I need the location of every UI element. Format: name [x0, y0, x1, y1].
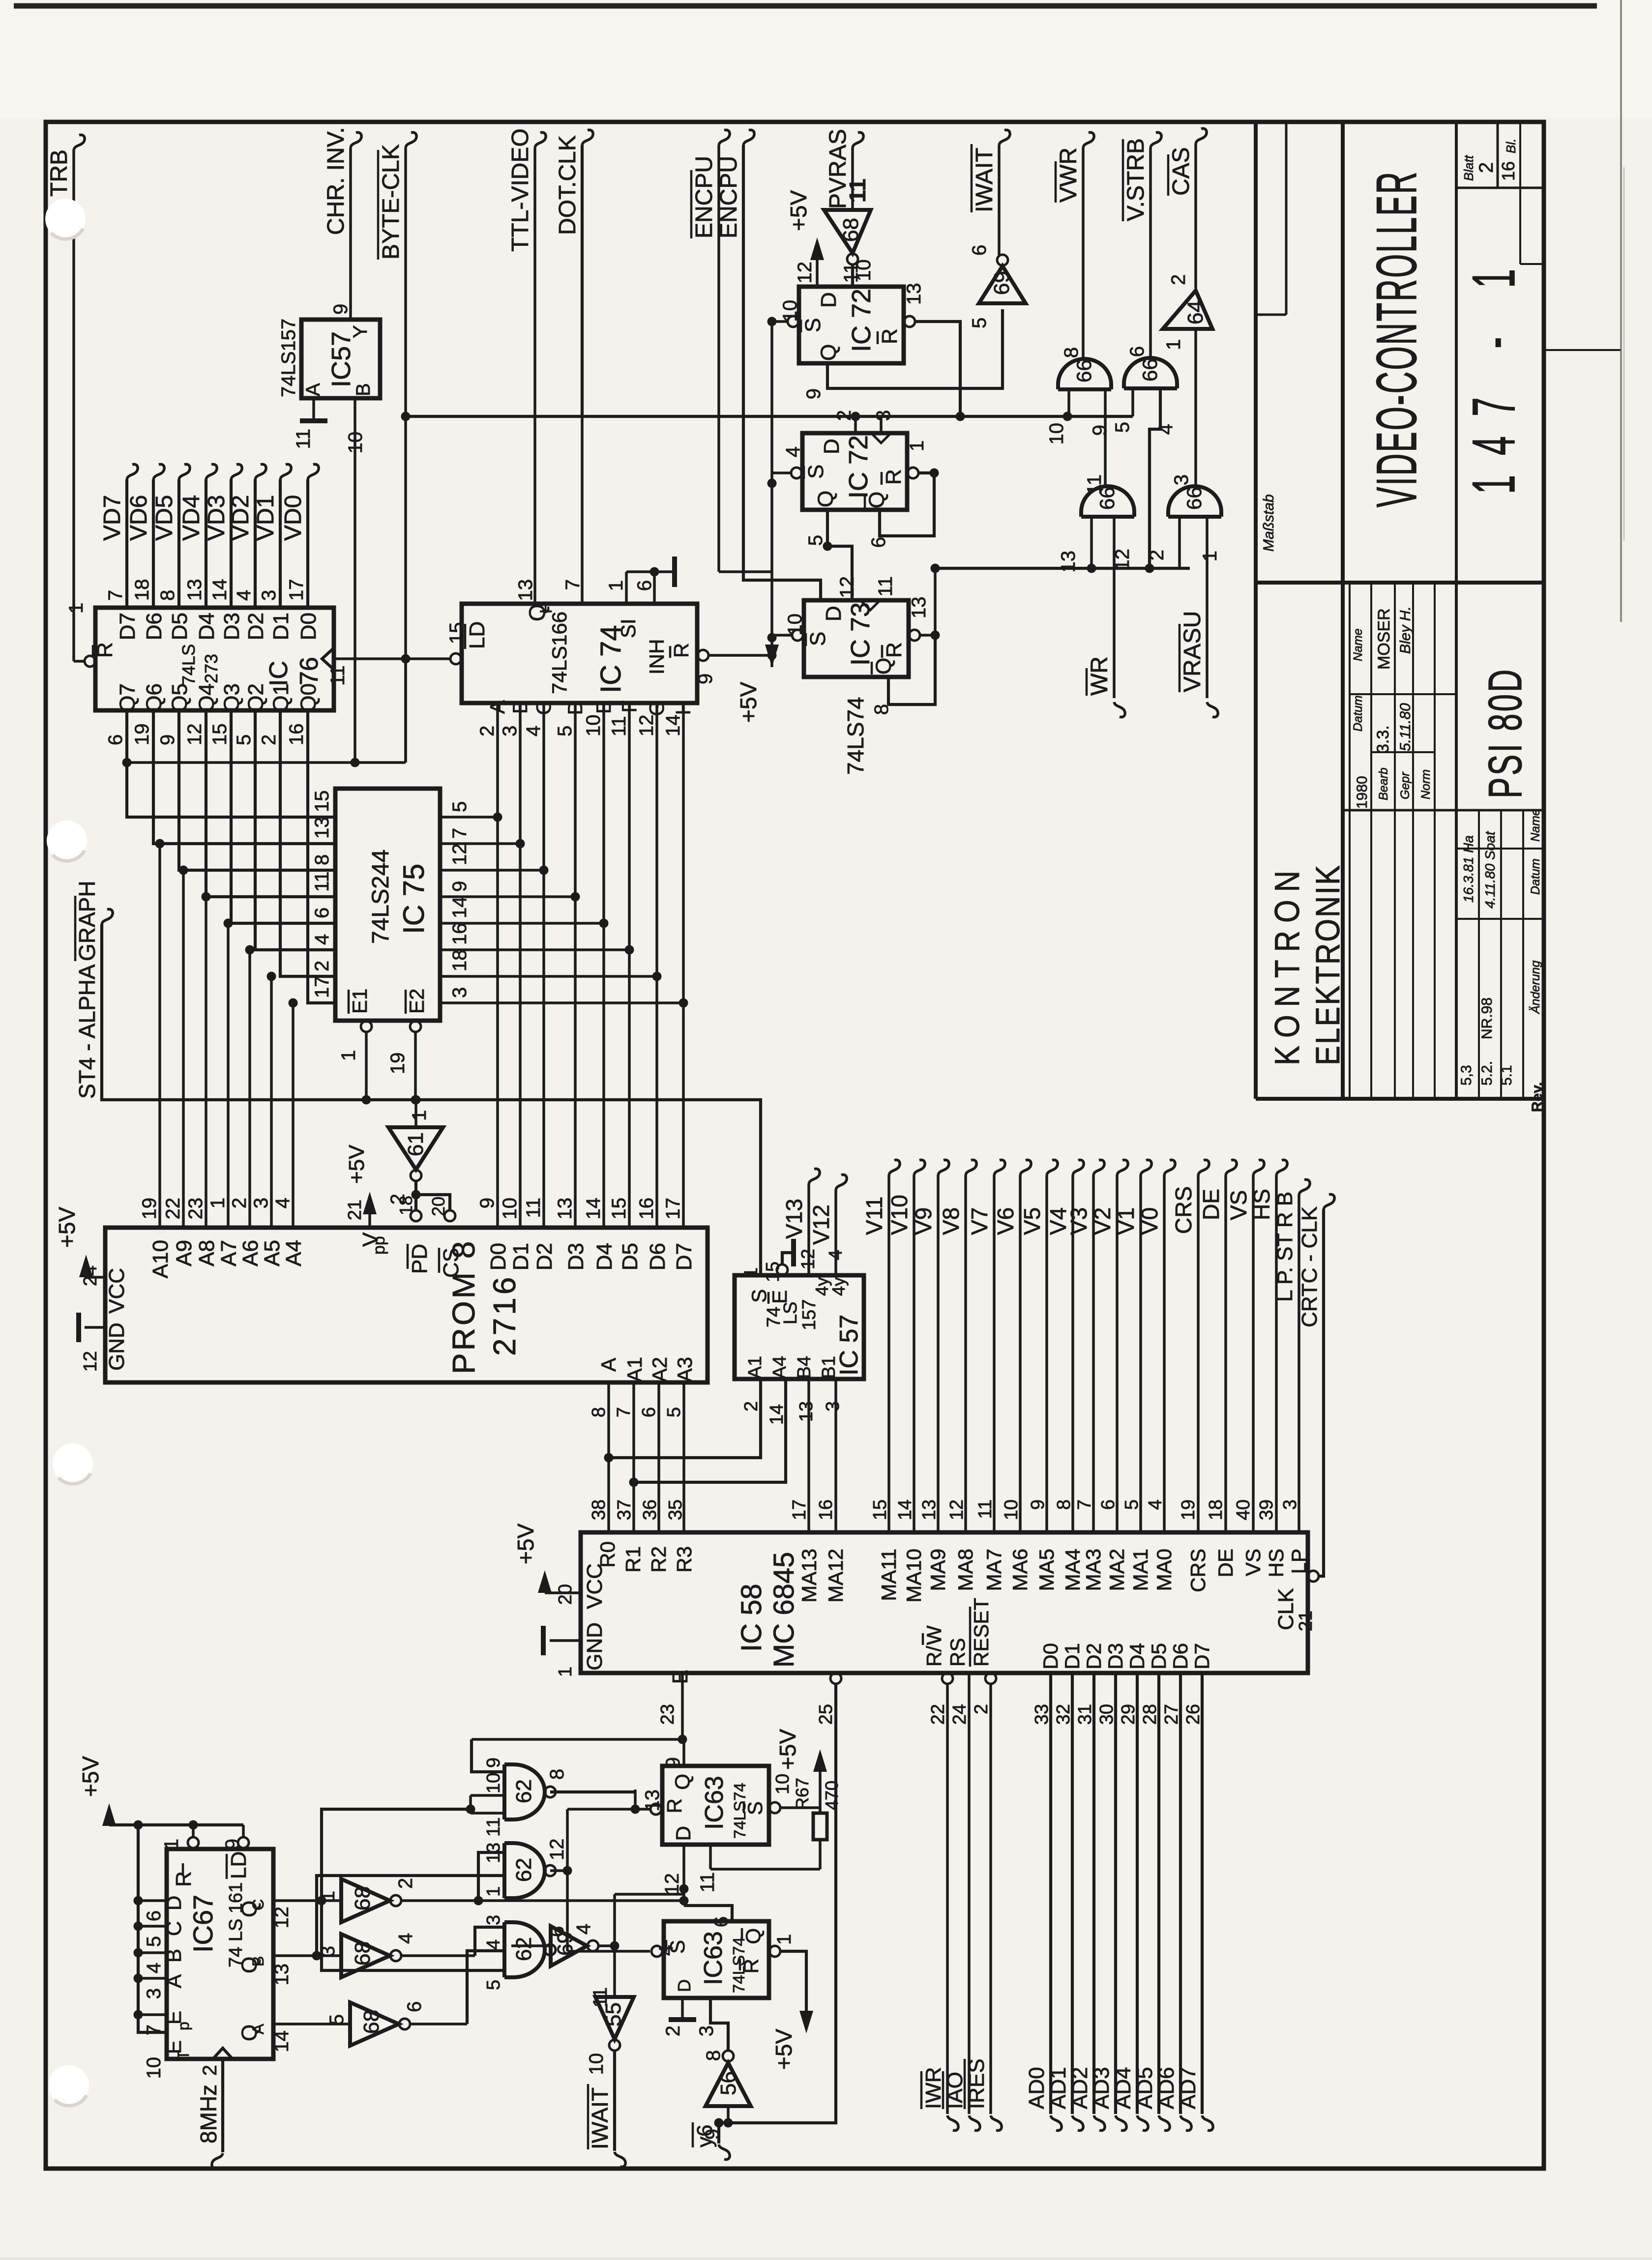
svg-text:V12: V12 — [808, 1204, 834, 1245]
svg-text:9: 9 — [476, 1198, 498, 1208]
svg-text:D: D — [820, 439, 844, 454]
svg-text:IC 72: IC 72 — [847, 289, 876, 352]
svg-text:13: 13 — [311, 817, 333, 839]
flipflop IC72 middle 74LS74 — [782, 410, 928, 548]
svg-text:D0: D0 — [296, 613, 321, 640]
svg-text:9: 9 — [1028, 1499, 1048, 1510]
svg-text:A7: A7 — [217, 1240, 241, 1266]
svg-text:R: R — [93, 642, 117, 658]
svg-text:5: 5 — [554, 726, 576, 736]
svg-text:IC 72: IC 72 — [844, 435, 873, 499]
svg-text:Blatt: Blatt — [1461, 154, 1476, 181]
svg-text:V0: V0 — [1137, 1207, 1162, 1235]
inverter 69 lower — [511, 1924, 619, 1966]
net flag ENCPU — [716, 130, 821, 600]
svg-text:CRS: CRS — [1186, 1549, 1209, 1592]
svg-text:13: 13 — [515, 579, 536, 601]
drawing number 147-1 — [1461, 249, 1528, 494]
wire node E-pin row y3538 — [472, 1739, 682, 1772]
wire 62b output joins S4 net — [550, 1869, 567, 1872]
svg-text:5: 5 — [449, 801, 471, 812]
svg-text:Q: Q — [671, 1774, 694, 1790]
net flag WR — [1087, 656, 1125, 717]
svg-text:Q: Q — [814, 491, 838, 507]
svg-text:64: 64 — [1183, 300, 1208, 324]
svg-text:2: 2 — [395, 1878, 416, 1889]
svg-text:MA11: MA11 — [877, 1549, 900, 1601]
svg-text:D2: D2 — [1082, 1643, 1105, 1670]
svg-text:IC63: IC63 — [699, 1931, 728, 1985]
svg-text:11: 11 — [845, 178, 870, 203]
power MC6845 VCC pin20 — [513, 1524, 581, 1605]
svg-text:3: 3 — [696, 2025, 717, 2036]
svg-text:1: 1 — [65, 603, 87, 614]
svg-text:A3: A3 — [673, 1357, 696, 1382]
revision table text — [1458, 809, 1545, 1112]
svg-text:A10: A10 — [148, 1240, 173, 1278]
svg-text:1980: 1980 — [1354, 776, 1370, 809]
svg-text:V7: V7 — [967, 1207, 992, 1235]
svg-text:13: 13 — [1058, 551, 1079, 573]
svg-text:D5: D5 — [1147, 1643, 1170, 1670]
wire IC76 clock pin11 row to IC74 LD — [334, 654, 450, 664]
svg-text:D7: D7 — [116, 613, 140, 640]
svg-text:SI: SI — [617, 618, 640, 638]
svg-text:5: 5 — [805, 535, 826, 546]
net flag CRTC-CLK — [1298, 1194, 1334, 1576]
svg-text:VD5: VD5 — [151, 495, 177, 541]
svg-text:7: 7 — [1074, 1499, 1095, 1510]
svg-text:Bley H.: Bley H. — [1397, 606, 1414, 654]
net flag V12 — [808, 1174, 847, 1275]
svg-text:ENCPU: ENCPU — [716, 156, 742, 238]
wire 66d inputs VRASU output — [1180, 517, 1207, 698]
svg-text:D7: D7 — [1190, 1643, 1213, 1670]
svg-text:74LS: 74LS — [178, 644, 199, 685]
wire 66c inputs WR output — [1091, 517, 1114, 698]
svg-text:A8: A8 — [195, 1240, 219, 1266]
svg-text:13: 13 — [903, 283, 925, 305]
svg-text:AD3: AD3 — [1090, 2067, 1114, 2109]
and gate 66 c — [1058, 474, 1134, 573]
wire 62a output to IC63 R13 — [550, 1790, 635, 1792]
net flag CRS — [1171, 1160, 1209, 1532]
svg-text:15: 15 — [608, 1198, 630, 1220]
svg-text:11: 11 — [327, 665, 349, 686]
svg-text:6: 6 — [710, 1916, 732, 1927]
inverter 68 PVRAS driver — [824, 210, 875, 287]
svg-text:IC: IC — [265, 661, 293, 686]
svg-text:VD1: VD1 — [253, 495, 279, 541]
net flag LP.STRB — [1273, 1179, 1310, 1532]
svg-text:D1: D1 — [1061, 1643, 1084, 1670]
svg-text:62: 62 — [512, 1779, 536, 1803]
svg-text:5,3: 5,3 — [1458, 1065, 1475, 1086]
svg-text:4: 4 — [1145, 1499, 1166, 1510]
svg-text:69: 69 — [553, 1932, 577, 1956]
svg-text:66: 66 — [1182, 487, 1206, 510]
svg-text:WR: WR — [1087, 656, 1113, 696]
svg-text:1: 1 — [317, 1891, 339, 1902]
svg-text:3: 3 — [483, 1915, 504, 1925]
svg-text:10: 10 — [772, 1774, 793, 1794]
svg-text:157: 157 — [799, 1299, 820, 1330]
svg-text:5: 5 — [1121, 1499, 1142, 1510]
svg-text:A: A — [302, 383, 324, 396]
svg-text:MA9: MA9 — [926, 1549, 949, 1591]
svg-text:14: 14 — [583, 1198, 604, 1220]
wire IC74 LD bubble pin15 — [446, 621, 489, 664]
svg-text:S: S — [806, 632, 830, 646]
wire IC63 top Q pin9 — [682, 1739, 685, 1766]
svg-text:Q1: Q1 — [269, 683, 293, 712]
svg-text:18: 18 — [449, 950, 471, 972]
svg-text:Q0: Q0 — [296, 683, 321, 712]
svg-text:A5: A5 — [260, 1240, 284, 1266]
svg-text:9: 9 — [702, 2129, 723, 2140]
svg-text:MA1: MA1 — [1129, 1549, 1152, 1591]
svg-text:68: 68 — [839, 218, 863, 242]
svg-text:VS: VS — [1241, 1549, 1265, 1576]
svg-text:MA13: MA13 — [797, 1549, 821, 1603]
svg-text:p: p — [175, 2022, 192, 2030]
wire 68c output to gate 62c — [411, 1951, 504, 2024]
svg-text:D1: D1 — [509, 1243, 533, 1270]
svg-text:Maßstab: Maßstab — [1261, 494, 1277, 552]
svg-text:273: 273 — [201, 654, 221, 683]
svg-text:V11: V11 — [861, 1197, 887, 1235]
svg-text:Gepr: Gepr — [1398, 771, 1412, 799]
svg-text:25: 25 — [816, 1704, 836, 1725]
net flag CHR.INV. — [323, 127, 361, 320]
svg-text:11: 11 — [523, 1198, 544, 1218]
svg-text:IC 73: IC 73 — [846, 602, 875, 666]
ground MC6845 GND pin1 — [543, 1626, 581, 1677]
svg-text:C: C — [162, 1921, 185, 1936]
scanner top edge artifact — [14, 3, 1597, 9]
svg-text:38: 38 — [589, 1499, 609, 1520]
net flag y6 — [693, 2122, 730, 2160]
svg-text:CRS: CRS — [1171, 1186, 1196, 1234]
svg-text:D3: D3 — [564, 1243, 588, 1270]
svg-text:11: 11 — [311, 871, 333, 892]
svg-text:9: 9 — [449, 881, 471, 892]
svg-text:68: 68 — [351, 1886, 375, 1910]
svg-text:CS: CS — [439, 1248, 463, 1278]
svg-text:V10: V10 — [886, 1195, 912, 1235]
svg-text:VD7: VD7 — [99, 495, 125, 541]
wire IC76 reset pin1 to TRB — [74, 656, 95, 667]
flipflop IC63 bottom 74LS74 — [655, 1916, 795, 2036]
svg-text:L P. ST R B: L P. ST R B — [1273, 1192, 1297, 1302]
svg-text:10: 10 — [143, 2057, 165, 2079]
svg-text:4: 4 — [272, 1198, 294, 1208]
svg-text:6: 6 — [1098, 1499, 1119, 1510]
svg-text:MA7: MA7 — [982, 1549, 1005, 1591]
svg-text:A1: A1 — [623, 1357, 646, 1382]
svg-text:74LS166: 74LS166 — [548, 612, 571, 694]
svg-text:2: 2 — [833, 410, 855, 421]
svg-text:14: 14 — [271, 2030, 293, 2053]
svg-text:1: 1 — [605, 580, 627, 591]
svg-text:B: B — [353, 383, 374, 396]
svg-text:IC57: IC57 — [326, 331, 356, 387]
svg-text:D7: D7 — [672, 1243, 696, 1270]
svg-text:4: 4 — [573, 1924, 594, 1935]
wire MC6845 CS pin25 to y6 — [714, 1673, 842, 2128]
svg-text:2: 2 — [229, 1198, 250, 1208]
svg-text:D2: D2 — [532, 1243, 557, 1270]
svg-text:13: 13 — [796, 1401, 817, 1422]
svg-text:12: 12 — [661, 1873, 683, 1895]
svg-text:40: 40 — [1233, 1499, 1254, 1520]
net flag IRES — [965, 2058, 1002, 2130]
svg-text:V1: V1 — [1113, 1207, 1139, 1235]
svg-text:5: 5 — [969, 318, 990, 328]
wire IC72 mid D pin2 and clock pin3 to run — [855, 416, 881, 433]
wire IC67 QB output — [273, 1876, 504, 1961]
svg-text:6: 6 — [311, 908, 333, 918]
svg-text:MA4: MA4 — [1061, 1549, 1084, 1591]
svg-text:147 - 1: 147 - 1 — [1461, 249, 1528, 494]
svg-text:Bl.: Bl. — [1504, 139, 1518, 153]
svg-text:E1: E1 — [348, 989, 371, 1014]
svg-text:36: 36 — [640, 1499, 660, 1520]
svg-text:6: 6 — [969, 245, 990, 256]
svg-text:Q4: Q4 — [195, 683, 219, 712]
svg-text:3: 3 — [449, 987, 471, 998]
net flag CAS inverted — [1168, 128, 1207, 289]
svg-text:Q7: Q7 — [116, 683, 140, 712]
svg-text:62: 62 — [512, 1937, 536, 1961]
revision table lines — [1456, 810, 1544, 1099]
svg-text:S: S — [804, 465, 828, 479]
svg-text:76: 76 — [295, 657, 324, 685]
svg-text:3: 3 — [317, 1946, 339, 1957]
svg-text:12: 12 — [636, 715, 657, 737]
svg-text:6: 6 — [105, 734, 126, 745]
svg-text:1: 1 — [409, 1110, 430, 1121]
svg-text:MA5: MA5 — [1035, 1549, 1058, 1591]
svg-text:D: D — [817, 292, 841, 308]
svg-text:VWR: VWR — [1056, 147, 1082, 203]
flipflop IC63 top 74LS74 — [642, 1757, 793, 1895]
net flag 8MHz clock input — [196, 2059, 223, 2169]
svg-text:MC 6845: MC 6845 — [768, 1552, 800, 1668]
svg-text:IC 58: IC 58 — [736, 1584, 767, 1652]
net ST4-ALPHA/GRAPH select line — [74, 881, 761, 1275]
mux IC57 74LS157 — [735, 1249, 864, 1425]
svg-text:PD: PD — [408, 1244, 432, 1274]
svg-text:Q3: Q3 — [220, 683, 244, 712]
svg-text:1: 1 — [906, 440, 928, 451]
title text VIDEO-CONTROLLER — [1365, 171, 1428, 507]
svg-text:3: 3 — [823, 1401, 843, 1411]
svg-text:74LS74: 74LS74 — [843, 697, 868, 775]
svg-text:PSI 80D: PSI 80D — [1479, 668, 1532, 798]
svg-text:D4: D4 — [1125, 1643, 1149, 1670]
svg-text:D: D — [563, 700, 587, 715]
svg-text:5.11.80: 5.11.80 — [1397, 703, 1414, 751]
svg-text:6: 6 — [634, 580, 655, 591]
svg-text:pp: pp — [370, 1236, 388, 1255]
svg-text:74LS157: 74LS157 — [278, 319, 299, 397]
svg-text:A: A — [162, 1974, 185, 1988]
crtc IC58 MC6845 — [581, 1499, 1316, 1725]
svg-text:12: 12 — [546, 1839, 568, 1861]
net flag PVRAS — [825, 129, 870, 210]
svg-text:V3: V3 — [1066, 1207, 1091, 1235]
svg-text:D1: D1 — [269, 613, 293, 640]
svg-text:7: 7 — [105, 590, 126, 601]
svg-text:+5V: +5V — [54, 1207, 80, 1248]
svg-text:1: 1 — [555, 1667, 576, 1677]
svg-text:22: 22 — [928, 1704, 948, 1725]
svg-text:8: 8 — [589, 1407, 609, 1417]
svg-text:4: 4 — [523, 726, 544, 736]
title block outer and main dividers — [1256, 122, 1544, 1099]
svg-text:9: 9 — [662, 1757, 684, 1768]
svg-text:11: 11 — [1084, 474, 1105, 495]
svg-text:11: 11 — [875, 576, 896, 597]
svg-text:15: 15 — [311, 791, 333, 813]
svg-text:74 LS 161: 74 LS 161 — [226, 1882, 246, 1967]
svg-text:11: 11 — [483, 1818, 504, 1837]
svg-text:Änderung: Änderung — [1529, 960, 1542, 1015]
svg-text:12: 12 — [449, 844, 471, 866]
net flag TTL-VIDEO — [507, 128, 546, 604]
svg-text:10: 10 — [1001, 1499, 1022, 1520]
svg-text:16: 16 — [1498, 161, 1518, 181]
svg-text:Norm: Norm — [1419, 769, 1433, 799]
svg-text:A: A — [597, 1358, 620, 1372]
svg-text:1: 1 — [1163, 339, 1184, 350]
svg-text:R: R — [670, 643, 693, 658]
svg-text:D5: D5 — [618, 1243, 642, 1270]
shift register IC74 74LS166 — [462, 579, 697, 736]
svg-text:Name: Name — [1351, 628, 1365, 661]
buffer 64 CAS driver — [1163, 274, 1212, 486]
svg-text:4.11.80 Soat: 4.11.80 Soat — [1482, 831, 1498, 909]
svg-text:R/: R/ — [922, 1646, 945, 1667]
Blatt cells — [1456, 122, 1621, 350]
and gate 66 b (V.STRB) — [1112, 346, 1177, 435]
register IC76 74LS273 — [65, 579, 349, 746]
svg-text:C: C — [249, 1899, 267, 1910]
svg-text:11: 11 — [293, 429, 314, 449]
wire 66a input/output — [1069, 389, 1105, 486]
svg-text:GND: GND — [583, 1622, 607, 1671]
svg-text:Datum: Datum — [1529, 858, 1542, 895]
svg-text:7: 7 — [614, 1407, 634, 1417]
inverter 68 b — [317, 1933, 416, 1977]
svg-text:E: E — [668, 1670, 692, 1684]
svg-text:10: 10 — [1046, 423, 1067, 445]
svg-text:19: 19 — [131, 724, 153, 746]
svg-text:16: 16 — [816, 1499, 836, 1520]
nand gate 62 c — [483, 1915, 568, 1990]
svg-text:Y: Y — [350, 325, 371, 338]
svg-text:V8: V8 — [938, 1207, 964, 1235]
svg-text:CRTC - CLK: CRTC - CLK — [1298, 1206, 1322, 1327]
svg-text:11: 11 — [697, 1872, 718, 1893]
svg-text:B: B — [508, 700, 531, 714]
svg-text:DE: DE — [1214, 1549, 1237, 1577]
and gate 66 d — [1146, 474, 1221, 561]
svg-text:IWAIT: IWAIT — [587, 2087, 613, 2149]
svg-text:20: 20 — [428, 1197, 448, 1216]
svg-text:VIDEO-CONTROLLER: VIDEO-CONTROLLER — [1365, 171, 1428, 507]
wire IC74 reset pin9 to +5V net — [695, 650, 772, 684]
svg-text:Q6: Q6 — [142, 683, 166, 712]
svg-text:GRAPH: GRAPH — [74, 881, 100, 961]
svg-text:A: A — [486, 700, 509, 714]
svg-text:13: 13 — [271, 1964, 293, 1986]
svg-text:74LS74: 74LS74 — [731, 1783, 749, 1839]
svg-text:10: 10 — [586, 2053, 607, 2075]
svg-text:66: 66 — [1138, 358, 1161, 382]
svg-text:10: 10 — [483, 1773, 504, 1793]
svg-text:3: 3 — [250, 1198, 272, 1208]
wire IC57 enable pin15 ground — [777, 1239, 794, 1275]
svg-text:12: 12 — [836, 576, 858, 598]
inverter 61 PD/CS driver — [387, 1100, 455, 1221]
wire BYTE-CLK horizontal run y1551 — [122, 659, 406, 767]
svg-text:R1: R1 — [621, 1546, 645, 1573]
svg-text:MA2: MA2 — [1105, 1549, 1128, 1591]
svg-text:12: 12 — [80, 1351, 101, 1372]
svg-text:A6: A6 — [238, 1240, 263, 1266]
svg-text:MA6: MA6 — [1008, 1549, 1032, 1591]
svg-text:IC 75: IC 75 — [397, 864, 430, 934]
ground PROM GND pin12 — [79, 1313, 105, 1372]
svg-text:AD6: AD6 — [1154, 2067, 1179, 2109]
svg-text:AD1: AD1 — [1046, 2067, 1070, 2109]
svg-text:7: 7 — [449, 828, 471, 839]
svg-text:2716: 2716 — [487, 1274, 522, 1356]
inverter 69 IWAIT driver — [969, 245, 1026, 328]
svg-text:2: 2 — [199, 2065, 221, 2076]
svg-text:37: 37 — [614, 1499, 635, 1520]
net flag ENCPU inverted — [691, 130, 772, 572]
svg-text:Q5: Q5 — [168, 683, 192, 712]
svg-text:+5V: +5V — [771, 2029, 796, 2070]
svg-text:A4: A4 — [282, 1240, 306, 1266]
svg-text:D: D — [672, 1826, 695, 1841]
svg-text:ENCPU: ENCPU — [691, 156, 717, 238]
wire IC63 top R pin13 from gate 62a and to S of IC63 bottom — [563, 1790, 662, 1951]
svg-text:2: 2 — [1146, 550, 1168, 560]
company name KONTRON ELEKTRONIK — [1268, 863, 1347, 1065]
svg-text:D: D — [822, 606, 846, 621]
svg-text:+5V: +5V — [513, 1524, 538, 1564]
svg-text:13: 13 — [184, 579, 206, 601]
svg-text:26: 26 — [1183, 1704, 1204, 1725]
wire 68b output to gate 62c — [402, 1927, 504, 1956]
svg-text:10: 10 — [499, 1198, 521, 1220]
svg-text:CHR. INV.: CHR. INV. — [323, 127, 349, 235]
svg-text:10: 10 — [583, 715, 604, 737]
svg-text:R: R — [882, 642, 906, 658]
scanner right page edge — [1621, 0, 1624, 622]
svg-text:18: 18 — [396, 1196, 416, 1215]
svg-text:Name: Name — [1529, 809, 1542, 842]
eprom PROM8 2716 — [105, 1198, 708, 1382]
svg-text:Q2: Q2 — [244, 683, 268, 712]
svg-text:68: 68 — [359, 2010, 383, 2034]
svg-text:LD: LD — [465, 621, 489, 649]
svg-text:AD5: AD5 — [1133, 2067, 1157, 2109]
